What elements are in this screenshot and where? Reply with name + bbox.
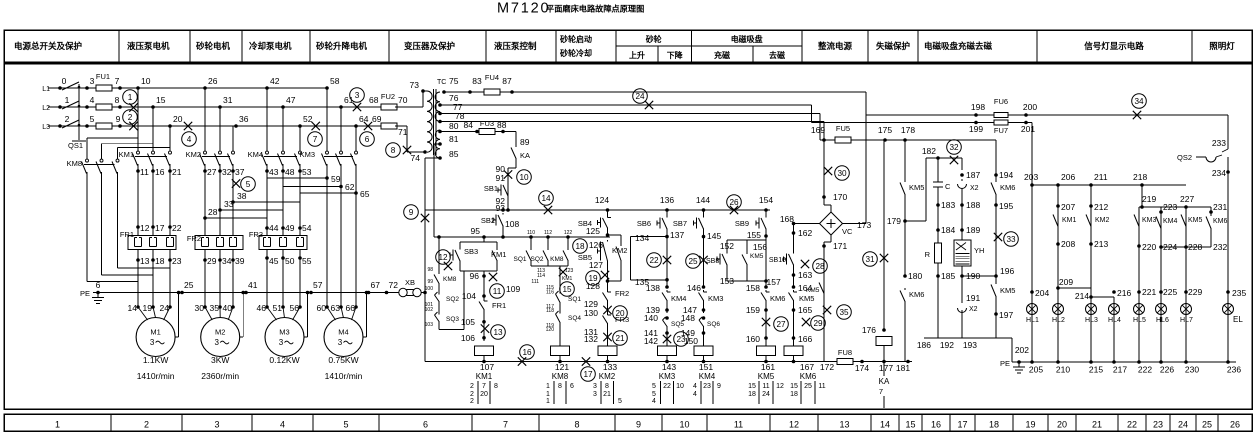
svg-text:电磁吸盘充磁去磁: 电磁吸盘充磁去磁 [924, 41, 993, 51]
svg-text:10: 10 [676, 383, 684, 390]
svg-text:48: 48 [285, 167, 295, 177]
svg-text:SQ3: SQ3 [446, 316, 459, 323]
svg-text:电磁吸盘: 电磁吸盘 [731, 34, 763, 44]
svg-text:106: 106 [461, 333, 475, 343]
svg-text:185: 185 [941, 271, 955, 281]
svg-text:23: 23 [703, 383, 711, 390]
svg-text:219: 219 [1142, 194, 1156, 204]
svg-text:0: 0 [62, 76, 67, 86]
svg-text:165: 165 [798, 305, 812, 315]
svg-text:41: 41 [248, 280, 258, 290]
svg-text:47: 47 [286, 95, 296, 105]
svg-text:157: 157 [767, 277, 781, 287]
svg-text:199: 199 [969, 124, 983, 134]
svg-text:9: 9 [636, 420, 641, 430]
svg-text:203: 203 [1024, 172, 1038, 182]
svg-text:84: 84 [464, 120, 474, 130]
svg-text:30: 30 [195, 303, 205, 313]
svg-text:26: 26 [1230, 420, 1240, 430]
svg-text:照明灯: 照明灯 [1209, 41, 1235, 51]
svg-text:188: 188 [966, 200, 980, 210]
svg-text:49: 49 [285, 223, 295, 233]
svg-text:107: 107 [480, 362, 494, 372]
svg-text:120: 120 [546, 327, 555, 333]
svg-text:184: 184 [941, 225, 955, 235]
svg-text:KM6: KM6 [800, 372, 817, 381]
svg-text:212: 212 [1094, 202, 1108, 212]
svg-text:58: 58 [330, 76, 340, 86]
svg-text:SB9: SB9 [735, 219, 749, 228]
svg-text:失磁保护: 失磁保护 [876, 41, 911, 51]
svg-text:100: 100 [425, 286, 434, 292]
svg-text:105: 105 [461, 317, 475, 327]
svg-text:38: 38 [237, 191, 247, 201]
svg-text:166: 166 [798, 334, 812, 344]
svg-text:8: 8 [574, 420, 579, 430]
svg-text:FR3: FR3 [615, 315, 629, 324]
svg-text:162: 162 [798, 228, 812, 238]
svg-text:27: 27 [776, 320, 786, 329]
svg-text:104: 104 [462, 291, 476, 301]
svg-text:8: 8 [605, 383, 609, 390]
svg-text:1: 1 [55, 420, 60, 430]
svg-text:KM1: KM1 [491, 250, 506, 259]
svg-text:26: 26 [208, 76, 218, 86]
svg-text:21: 21 [172, 167, 182, 177]
svg-text:FU3: FU3 [480, 119, 494, 128]
svg-text:175: 175 [878, 125, 892, 135]
svg-text:232: 232 [1213, 242, 1227, 252]
svg-text:34: 34 [222, 256, 232, 266]
svg-text:75: 75 [449, 76, 459, 86]
svg-text:72: 72 [389, 280, 399, 290]
svg-text:30: 30 [837, 169, 847, 178]
svg-text:202: 202 [1015, 345, 1029, 355]
svg-text:L3: L3 [42, 124, 50, 131]
svg-text:177: 177 [879, 363, 893, 373]
svg-text:4: 4 [652, 398, 656, 405]
svg-text:砂轮启动: 砂轮启动 [559, 34, 592, 44]
svg-text:KM6: KM6 [1000, 183, 1015, 192]
svg-text:SB8: SB8 [706, 258, 719, 265]
svg-text:207: 207 [1061, 202, 1075, 212]
svg-text:225: 225 [1163, 287, 1177, 297]
svg-text:71: 71 [398, 127, 408, 137]
svg-text:KM5: KM5 [799, 294, 814, 303]
svg-text:54: 54 [302, 223, 312, 233]
svg-text:19: 19 [1025, 420, 1035, 430]
svg-text:192: 192 [940, 340, 954, 350]
svg-text:2: 2 [470, 391, 474, 398]
svg-text:15: 15 [748, 383, 756, 390]
svg-text:28: 28 [208, 207, 218, 217]
svg-text:181: 181 [896, 363, 910, 373]
svg-text:116: 116 [546, 290, 554, 296]
svg-text:SB2: SB2 [481, 216, 495, 225]
svg-text:FU4: FU4 [485, 73, 499, 82]
svg-text:214: 214 [1075, 291, 1089, 301]
svg-text:5: 5 [652, 383, 656, 390]
svg-text:21: 21 [615, 334, 625, 343]
svg-text:KM6: KM6 [1213, 218, 1228, 225]
svg-text:183: 183 [941, 200, 955, 210]
svg-text:KM3: KM3 [708, 294, 723, 303]
svg-text:6: 6 [423, 420, 428, 430]
svg-text:8: 8 [494, 383, 498, 390]
svg-text:178: 178 [901, 125, 915, 135]
svg-text:171: 171 [833, 241, 847, 251]
svg-text:1: 1 [546, 383, 550, 390]
svg-text:23: 23 [1153, 420, 1163, 430]
svg-text:198: 198 [971, 102, 985, 112]
svg-text:电源总开关及保护: 电源总开关及保护 [14, 41, 83, 51]
svg-text:215: 215 [1089, 365, 1103, 375]
svg-text:63: 63 [331, 303, 341, 313]
svg-text:KM4: KM4 [248, 150, 263, 159]
svg-text:KM1: KM1 [562, 276, 573, 282]
svg-text:186: 186 [917, 340, 931, 350]
svg-text:85: 85 [449, 149, 459, 159]
svg-text:KM2: KM2 [599, 372, 616, 381]
svg-text:EL: EL [1233, 315, 1243, 324]
svg-text:158: 158 [746, 283, 760, 293]
svg-text:7: 7 [482, 383, 486, 390]
svg-text:18: 18 [790, 391, 798, 398]
svg-text:FU8: FU8 [838, 348, 852, 357]
svg-text:11: 11 [818, 383, 825, 390]
svg-text:133: 133 [603, 362, 617, 372]
svg-text:5: 5 [90, 114, 95, 124]
svg-text:161: 161 [761, 362, 775, 372]
svg-text:3: 3 [214, 338, 219, 347]
svg-text:X2: X2 [969, 306, 978, 313]
svg-text:167: 167 [800, 362, 814, 372]
svg-text:液压泵控制: 液压泵控制 [494, 41, 537, 51]
svg-text:222: 222 [1138, 365, 1152, 375]
svg-text:112: 112 [544, 230, 552, 236]
svg-text:24: 24 [762, 391, 770, 398]
svg-text:55: 55 [302, 256, 312, 266]
svg-text:136: 136 [660, 195, 674, 205]
svg-text:0.12KW: 0.12KW [269, 355, 299, 365]
svg-text:砂轮冷却: 砂轮冷却 [559, 48, 592, 58]
svg-text:FU7: FU7 [994, 126, 1008, 135]
svg-text:KM8: KM8 [550, 256, 564, 263]
svg-text:3: 3 [279, 338, 284, 347]
svg-text:142: 142 [644, 336, 658, 346]
svg-text:L1: L1 [42, 86, 50, 93]
svg-text:74: 74 [411, 153, 421, 163]
svg-text:111: 111 [531, 279, 539, 285]
svg-text:67: 67 [371, 280, 381, 290]
svg-text:33: 33 [1006, 235, 1016, 244]
svg-text:221: 221 [1142, 287, 1156, 297]
svg-text:KM4: KM4 [671, 294, 686, 303]
svg-text:0.75KW: 0.75KW [328, 355, 358, 365]
svg-text:9: 9 [116, 114, 121, 124]
svg-text:KM6: KM6 [770, 294, 785, 303]
svg-text:3: 3 [593, 391, 597, 398]
svg-text:43: 43 [269, 167, 279, 177]
svg-text:20: 20 [173, 114, 183, 124]
svg-text:3KW: 3KW [211, 355, 229, 365]
svg-text:96: 96 [470, 271, 480, 281]
svg-text:3: 3 [90, 76, 95, 86]
svg-text:上升: 上升 [629, 50, 645, 60]
svg-text:7: 7 [313, 135, 318, 144]
svg-text:4: 4 [693, 391, 697, 398]
svg-text:KM2: KM2 [1095, 217, 1110, 224]
svg-text:2: 2 [65, 114, 70, 124]
svg-text:91: 91 [496, 173, 506, 183]
svg-text:233: 233 [1212, 138, 1226, 148]
svg-text:15: 15 [905, 420, 915, 430]
svg-text:3: 3 [593, 383, 597, 390]
svg-text:M3: M3 [279, 328, 289, 337]
svg-text:14: 14 [128, 303, 138, 313]
svg-text:40: 40 [223, 303, 233, 313]
svg-text:23: 23 [172, 256, 182, 266]
svg-text:51: 51 [273, 303, 283, 313]
svg-text:HL6: HL6 [1156, 317, 1169, 324]
svg-text:KM5: KM5 [750, 253, 764, 260]
svg-text:25: 25 [1202, 420, 1212, 430]
svg-text:KM3: KM3 [300, 150, 315, 159]
svg-text:109: 109 [506, 284, 520, 294]
svg-text:210: 210 [1056, 365, 1070, 375]
svg-text:7: 7 [115, 76, 120, 86]
svg-text:21: 21 [1092, 420, 1102, 430]
svg-text:HL4: HL4 [1108, 317, 1121, 324]
svg-text:KM1: KM1 [476, 372, 493, 381]
svg-text:191: 191 [966, 293, 980, 303]
svg-text:9: 9 [409, 208, 414, 217]
svg-text:234: 234 [1212, 168, 1226, 178]
svg-text:KM8: KM8 [67, 159, 82, 168]
svg-text:5: 5 [343, 420, 348, 430]
svg-text:SB3: SB3 [464, 247, 478, 256]
svg-text:14: 14 [880, 420, 890, 430]
svg-text:FU5: FU5 [836, 124, 850, 133]
svg-text:M4: M4 [338, 328, 348, 337]
svg-text:99: 99 [427, 279, 433, 285]
svg-text:121: 121 [555, 362, 569, 372]
svg-text:36: 36 [239, 114, 249, 124]
svg-text:180: 180 [908, 271, 922, 281]
svg-text:29: 29 [207, 256, 217, 266]
svg-text:57: 57 [313, 280, 323, 290]
svg-text:126: 126 [589, 240, 603, 250]
svg-text:124: 124 [595, 195, 609, 205]
svg-text:217: 217 [1113, 365, 1127, 375]
svg-text:15: 15 [790, 383, 798, 390]
svg-text:FU2: FU2 [381, 92, 395, 101]
svg-text:70: 70 [398, 95, 408, 105]
svg-text:HL2: HL2 [1052, 317, 1065, 324]
svg-text:220: 220 [1142, 242, 1156, 252]
svg-text:223: 223 [1163, 202, 1177, 212]
svg-text:KM8: KM8 [443, 276, 457, 283]
svg-text:172: 172 [820, 362, 834, 372]
svg-text:230: 230 [1185, 365, 1199, 375]
svg-text:KM3: KM3 [659, 372, 676, 381]
svg-text:17: 17 [155, 223, 165, 233]
svg-text:44: 44 [269, 223, 279, 233]
svg-text:35: 35 [839, 308, 849, 317]
svg-text:32: 32 [949, 143, 959, 152]
svg-text:25: 25 [688, 257, 698, 266]
svg-text:XB: XB [405, 278, 415, 287]
svg-text:9: 9 [717, 383, 721, 390]
svg-text:下降: 下降 [667, 50, 684, 60]
svg-text:22: 22 [1127, 420, 1137, 430]
svg-text:138: 138 [646, 283, 660, 293]
svg-text:160: 160 [746, 334, 760, 344]
svg-text:15: 15 [562, 285, 572, 294]
svg-text:4: 4 [280, 420, 285, 430]
svg-text:YH: YH [974, 246, 984, 255]
svg-text:8: 8 [391, 146, 396, 155]
svg-text:FU1: FU1 [96, 72, 110, 81]
svg-text:216: 216 [1117, 288, 1131, 298]
svg-text:2: 2 [470, 383, 474, 390]
svg-text:152: 152 [720, 241, 734, 251]
svg-text:122: 122 [564, 230, 573, 236]
svg-text:29: 29 [813, 319, 823, 328]
svg-text:108: 108 [505, 219, 519, 229]
svg-text:18: 18 [748, 391, 756, 398]
svg-text:砂轮电机: 砂轮电机 [195, 41, 231, 51]
svg-text:151: 151 [699, 362, 713, 372]
svg-text:21: 21 [603, 391, 611, 398]
svg-text:FR2: FR2 [615, 289, 629, 298]
svg-text:11: 11 [734, 420, 743, 430]
svg-text:8: 8 [115, 95, 120, 105]
svg-text:12: 12 [140, 223, 150, 233]
svg-text:FR2: FR2 [187, 234, 201, 243]
svg-text:KA: KA [520, 151, 530, 160]
svg-text:200: 200 [1023, 102, 1037, 112]
svg-text:2: 2 [128, 113, 133, 122]
svg-text:SB7: SB7 [673, 219, 687, 228]
svg-text:81: 81 [449, 134, 459, 144]
svg-text:5: 5 [618, 398, 622, 405]
svg-text:13: 13 [839, 420, 849, 430]
svg-text:SQ4: SQ4 [568, 315, 581, 322]
svg-text:22: 22 [172, 223, 182, 233]
svg-text:229: 229 [1188, 287, 1202, 297]
svg-text:10: 10 [679, 420, 689, 430]
svg-text:1: 1 [65, 95, 70, 105]
svg-text:6: 6 [365, 135, 370, 144]
svg-text:174: 174 [855, 363, 869, 373]
svg-text:25: 25 [184, 280, 194, 290]
svg-text:12: 12 [789, 420, 799, 430]
svg-text:FR3: FR3 [249, 230, 263, 239]
svg-text:7: 7 [503, 420, 508, 430]
svg-text:6: 6 [96, 280, 101, 290]
svg-text:M7120: M7120 [497, 1, 550, 17]
svg-text:充磁: 充磁 [714, 50, 730, 60]
svg-text:62: 62 [345, 182, 355, 192]
svg-text:10: 10 [519, 173, 529, 182]
svg-text:1: 1 [546, 391, 550, 398]
svg-text:16: 16 [522, 348, 532, 357]
svg-text:211: 211 [1094, 172, 1108, 182]
svg-text:143: 143 [662, 362, 676, 372]
svg-text:95: 95 [471, 226, 481, 236]
svg-text:27: 27 [207, 167, 217, 177]
svg-text:88: 88 [497, 120, 507, 130]
svg-text:52: 52 [303, 114, 313, 124]
svg-text:34: 34 [1134, 97, 1144, 106]
svg-text:16: 16 [155, 167, 165, 177]
svg-text:154: 154 [759, 195, 773, 205]
svg-text:56: 56 [290, 303, 300, 313]
svg-text:VC: VC [842, 227, 853, 236]
svg-text:QS1: QS1 [68, 141, 83, 150]
svg-text:13: 13 [493, 328, 503, 337]
svg-text:3: 3 [214, 420, 219, 430]
svg-text:32: 32 [222, 167, 232, 177]
svg-text:137: 137 [670, 230, 684, 240]
svg-text:1410r/min: 1410r/min [137, 371, 175, 381]
svg-text:145: 145 [707, 231, 721, 241]
svg-text:118: 118 [546, 308, 554, 314]
svg-text:196: 196 [1000, 266, 1014, 276]
svg-text:HL7: HL7 [1180, 317, 1193, 324]
svg-text:146: 146 [687, 283, 701, 293]
svg-text:4: 4 [693, 383, 697, 390]
svg-text:170: 170 [833, 192, 847, 202]
svg-text:206: 206 [1061, 172, 1075, 182]
svg-text:HL1: HL1 [1026, 317, 1039, 324]
svg-text:176: 176 [862, 325, 876, 335]
svg-text:69: 69 [372, 114, 382, 124]
svg-text:C: C [945, 182, 951, 191]
svg-text:3: 3 [355, 91, 360, 100]
svg-text:125: 125 [586, 226, 600, 236]
svg-text:35: 35 [210, 303, 220, 313]
svg-text:KM4: KM4 [699, 372, 716, 381]
svg-text:89: 89 [520, 137, 530, 147]
svg-text:砂轮: 砂轮 [645, 34, 662, 44]
svg-text:103: 103 [425, 322, 434, 328]
svg-text:1: 1 [546, 398, 550, 405]
svg-text:16: 16 [931, 420, 941, 430]
svg-text:46: 46 [257, 303, 267, 313]
svg-text:X2: X2 [970, 185, 979, 192]
svg-text:KA: KA [879, 377, 890, 386]
svg-text:187: 187 [966, 170, 980, 180]
svg-text:2360r/min: 2360r/min [201, 371, 239, 381]
svg-text:150: 150 [684, 336, 698, 346]
svg-text:平面磨床电路故障点原理图: 平面磨床电路故障点原理图 [546, 4, 644, 14]
svg-text:98: 98 [427, 267, 433, 273]
svg-text:KM1: KM1 [1062, 217, 1077, 224]
svg-text:SQ6: SQ6 [707, 321, 720, 328]
svg-text:QS2: QS2 [1177, 153, 1192, 162]
svg-text:KM2: KM2 [612, 246, 627, 255]
svg-text:4: 4 [187, 135, 192, 144]
svg-text:KM3: KM3 [1142, 217, 1157, 224]
svg-text:12: 12 [438, 253, 448, 262]
svg-text:4: 4 [90, 95, 95, 105]
svg-text:SQ1: SQ1 [513, 256, 526, 263]
svg-text:KM5: KM5 [1000, 286, 1015, 295]
svg-text:KM1: KM1 [119, 150, 134, 159]
svg-text:193: 193 [963, 340, 977, 350]
